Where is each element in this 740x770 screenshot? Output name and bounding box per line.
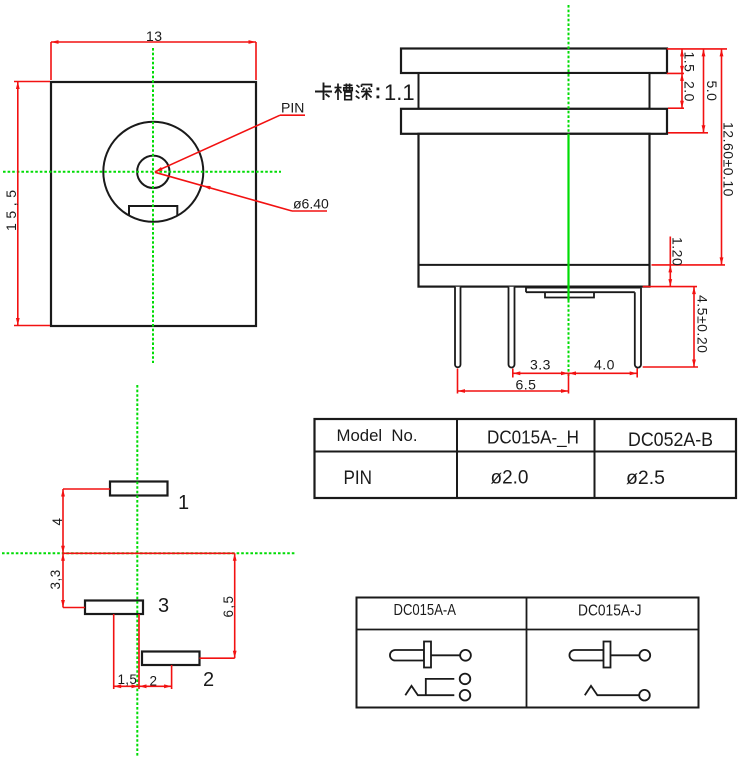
body band line [419,264,650,266]
pin middle [509,287,515,368]
centerline horizontal (front view) [3,171,281,173]
plug symbol A [390,642,471,668]
centerline vertical (side view) [568,5,570,134]
switch symbol A [405,674,470,701]
dimension 5.0 [668,49,720,133]
svg-text:6.5: 6.5 [516,377,537,393]
pin left [455,287,461,367]
dimension 13 [51,28,256,80]
svg-text:2: 2 [150,674,158,689]
pad 3 [85,601,143,615]
svg-text:DC015A-_H: DC015A-_H [487,427,579,449]
leader ø6.40 [155,172,329,211]
svg-text:1,5: 1,5 [118,672,138,687]
svg-text:ø6.40: ø6.40 [293,196,329,212]
centerline vertical (front view) [152,48,154,363]
svg-text:3,3: 3,3 [48,569,63,589]
plug symbol J [569,642,650,668]
centerline horizontal (pad view) [2,552,295,554]
svg-text:1: 1 [178,492,189,514]
svg-text:4.0: 4.0 [594,357,615,373]
svg-text:13: 13 [146,28,163,44]
svg-text:DC052A-B: DC052A-B [628,430,713,451]
svg-text:ø2.5: ø2.5 [626,468,665,489]
svg-text:DC015A-A: DC015A-A [394,602,457,619]
keyway notch [129,206,177,216]
dimension 3,3 [48,553,85,607]
pad 2 [142,652,200,666]
svg-text:3.3: 3.3 [530,357,551,373]
colon [377,88,380,99]
dimension 4.5±0.20 [643,287,711,367]
terminal tab [545,292,594,297]
dimension 3.3 (side view) [513,357,569,378]
dimension 4 [50,489,110,553]
svg-text:2: 2 [203,669,214,691]
main body [419,134,650,287]
slot depth text 卡槽深：1.1 [315,83,332,101]
svg-text:6,5: 6,5 [221,595,236,618]
svg-text:4: 4 [50,518,65,526]
front view body outline [51,82,256,326]
flange [401,109,667,134]
dimension 15,5 [3,82,50,326]
pad 1 [110,482,168,496]
dimension 12.60±0.10 [652,49,737,265]
svg-text:ø2.0: ø2.0 [491,468,529,489]
top cap [401,49,667,74]
pin circle [137,156,169,188]
svg-text:1.20: 1.20 [670,237,686,266]
dimension 2.0 [668,73,698,108]
svg-text:5.0: 5.0 [704,81,720,102]
terminal plate [526,288,641,293]
svg-text:4.5±0.20: 4.5±0.20 [695,295,711,353]
dimension 6.5 (side view) [458,369,569,394]
svg-text:1.5: 1.5 [682,52,698,73]
dimension 1.5 [667,49,727,74]
svg-text:12.60±0.10: 12.60±0.10 [721,122,737,197]
centerline vertical (pad view) [136,385,138,757]
dimension 1,5 and 2 [114,614,172,689]
svg-text:DC015A-J: DC015A-J [578,603,642,620]
svg-text:3: 3 [158,595,169,617]
svg-text:15,5: 15,5 [3,185,19,231]
dimension 4.0 (side view) [569,357,638,378]
svg-text:1.1: 1.1 [384,80,415,105]
switch symbol J [585,686,650,701]
svg-text:PIN: PIN [344,468,373,489]
svg-text:2.0: 2.0 [682,81,698,102]
outer circle ø6.40 [103,122,203,222]
leader PIN [154,100,305,174]
svg-text:Model No.: Model No. [337,426,418,445]
pin right [635,288,641,368]
groove band [419,73,650,109]
svg-text:PIN: PIN [281,100,304,116]
dimension 1.20 [643,237,697,287]
dimension 6,5 [63,553,237,658]
